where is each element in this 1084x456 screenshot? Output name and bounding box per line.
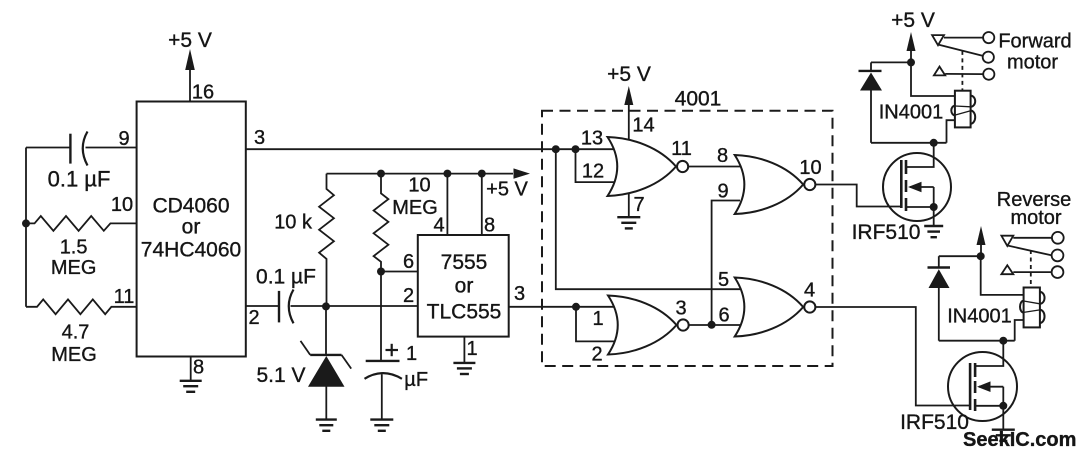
NOR gate A (pins 13,12 -> 11) (608, 137, 689, 196)
svg-text:2: 2 (403, 285, 414, 307)
wire Q2 source to ground (1002, 406, 1004, 430)
pin label 13 (581, 128, 603, 150)
svg-text:SeekIC.com: SeekIC.com (963, 429, 1076, 451)
svg-text:TLC555: TLC555 (427, 301, 502, 324)
svg-text:µF: µF (404, 369, 428, 391)
wire rail to U2 pin 4 (446, 174, 448, 235)
label C3 value 1 uF (404, 343, 428, 391)
wire: left vertical bus from pin 9 branch down to pin 11 branch (25, 148, 27, 307)
svg-text:11: 11 (671, 138, 692, 160)
pin label 4 (804, 280, 815, 302)
svg-text:motor: motor (1010, 207, 1061, 229)
svg-text:4.7: 4.7 (62, 322, 90, 344)
NOR gate C (pins 1,2 -> 3) (608, 296, 689, 355)
pin label 14 (632, 115, 654, 137)
label R1 value 1.5 MEG (51, 237, 97, 280)
svg-text:12: 12 (582, 161, 604, 183)
label Q2 IRF510 (900, 411, 969, 434)
label D3 IN4001 (947, 306, 1012, 328)
pin label 9 (717, 181, 728, 203)
wire D2 anode to Q1 drain node and coil return (871, 142, 947, 144)
svg-text:74HC4060: 74HC4060 (141, 239, 241, 262)
transistor Q1 IRF510 (883, 143, 951, 221)
IC U3 4001 dashed package box (542, 88, 833, 367)
wire U2 pin 6 to R4 bottom (381, 271, 418, 273)
wire pin 8 to ground (190, 357, 192, 381)
ground (Q1 source) (924, 226, 943, 237)
svg-text:IRF510: IRF510 (900, 411, 969, 434)
pin label 3 (675, 298, 686, 320)
pin label 3 (U1 output) (254, 127, 265, 149)
label D1 value 5.1 V (256, 364, 305, 387)
svg-text:1: 1 (592, 308, 603, 330)
resistor R2 4.7 MEG (pin 11) (26, 299, 137, 314)
capacitor C1 0.1 uF (pin 9 coupling) (70, 132, 87, 166)
svg-text:10 k: 10 k (274, 212, 313, 234)
pin label 16 (192, 82, 214, 104)
label R3 value 10 k (274, 212, 313, 234)
wire rail to U2 pin 8 (481, 174, 483, 235)
node dot rail / pin 8 (478, 170, 486, 178)
pin label 10 (799, 157, 821, 179)
svg-text:3: 3 (514, 283, 525, 305)
relay K1 coil (forward) (951, 91, 975, 128)
svg-text:3: 3 (675, 298, 686, 320)
wire +5V node to relay coil top (reverse) (981, 256, 1024, 295)
pin label 10 (111, 194, 133, 216)
svg-text:5: 5 (718, 269, 729, 291)
svg-text:2: 2 (591, 344, 602, 366)
label C2 value 0.1 uF (256, 266, 316, 289)
label Reverse motor (997, 189, 1071, 229)
pin label 8 (193, 357, 204, 379)
svg-text:5.1 V: 5.1 V (256, 364, 305, 387)
node dot +5V / D3 / relay coil (reverse) (977, 252, 985, 260)
NOR gate D (pins 5,6 -> 4) (735, 278, 816, 337)
pin label 6 (403, 251, 414, 273)
wire U1 pin 2 to C2 (246, 305, 279, 307)
svg-text:7: 7 (633, 194, 644, 216)
svg-text:8: 8 (193, 357, 204, 379)
wire +5V rail above 7555 (327, 173, 514, 175)
wire pin 12 tie branch (576, 149, 619, 182)
wire gate A output to gate B pin 8 (688, 166, 740, 168)
ground (Q2 source) (992, 430, 1015, 441)
svg-text:+5 V: +5 V (168, 29, 212, 52)
wire gate B pin 9 from gate C output line (712, 201, 740, 325)
svg-text:1.5: 1.5 (60, 237, 88, 259)
svg-text:9: 9 (717, 181, 728, 203)
node dot +5V / D2 / relay coil (forward) (907, 58, 915, 66)
svg-text:4001: 4001 (675, 88, 722, 111)
power +5V arrow (forward relay) (891, 9, 935, 62)
label Q1 IRF510 (852, 221, 921, 244)
wire U1 pin 3 to NOR gate pin 13 (long top line) (246, 148, 618, 150)
wire gate D output 4 to Q2 gate (815, 307, 970, 406)
relay K2 switch contacts (reverse) (1001, 232, 1063, 287)
wire relay coil bottom return (reverse) (1015, 320, 1024, 341)
pin label 2 (U2) (403, 285, 414, 307)
node dot pin13 line / pin12 branch (572, 145, 580, 153)
pin label 7 (633, 194, 644, 216)
wire +5V node to relay coil top (forward) (911, 62, 955, 96)
wire gate B output 10 to Q1 gate (815, 185, 901, 207)
svg-text:MEG: MEG (51, 344, 97, 366)
svg-text:7555: 7555 (441, 251, 488, 274)
pin label 2 (591, 344, 602, 366)
pin label 5 (718, 269, 729, 291)
wire pin 5 long branch (down and right to gate D) (556, 149, 740, 289)
node dot U2 pin3 line / pin2 branch (572, 303, 580, 311)
diode D2 IN4001 (forward flyback) (859, 71, 883, 143)
wire pin 16 to +5V (189, 58, 191, 102)
svg-text:16: 16 (192, 82, 214, 104)
svg-text:10: 10 (408, 175, 430, 197)
node junction dot on left bus at 1.5 MEG branch (22, 219, 30, 227)
svg-text:3: 3 (254, 127, 265, 149)
wire node A to U2 pin 2 (326, 305, 418, 307)
svg-text:CD4060: CD4060 (152, 195, 229, 218)
diode D3 IN4001 (reverse flyback) (928, 268, 951, 341)
ground (U3 pin 7) (617, 217, 640, 228)
svg-text:11: 11 (114, 286, 135, 308)
wire pin6 node down to C3 (crosses pin2 wire, no joint) (380, 272, 382, 361)
NOR gate B (pins 8,9 -> 10) (735, 155, 816, 214)
IC U1 CD4060 box (137, 102, 246, 357)
svg-text:+5 V: +5 V (486, 179, 528, 201)
power +5V arrow (U3 pin 14) (607, 63, 651, 105)
svg-text:6: 6 (403, 251, 414, 273)
wire gate A pin 14 to +5V (628, 95, 630, 150)
pin label 1 (U2) (466, 338, 477, 360)
label C1 value 0.1 uF (48, 167, 111, 192)
pin label 3 (U2 output) (514, 283, 525, 305)
relay K2 coil (reverse) (1020, 288, 1045, 328)
svg-text:1: 1 (466, 338, 477, 360)
node dot Q2 drain junction (999, 337, 1007, 345)
wire pin 2 tie branch (576, 307, 618, 342)
svg-text:10: 10 (111, 194, 133, 216)
svg-text:10: 10 (799, 157, 821, 179)
wire U2 pin 3 to NOR gate pin 1 (509, 306, 618, 308)
svg-text:IRF510: IRF510 (852, 221, 921, 244)
power +5V arrow (reverse relay) (977, 226, 986, 256)
svg-text:1: 1 (406, 343, 417, 365)
svg-text:or: or (182, 216, 201, 239)
svg-text:or: or (455, 275, 474, 298)
svg-text:6: 6 (718, 305, 729, 327)
wire Q1 source to ground (933, 207, 935, 226)
wire pin 9 branch left segment (26, 147, 70, 149)
capacitor C3 1 uF polarized (365, 344, 402, 420)
pin label 11 (114, 286, 135, 308)
node dot Q2 source (999, 402, 1007, 410)
svg-text:+5 V: +5 V (891, 9, 935, 32)
svg-text:8: 8 (484, 215, 495, 237)
svg-text:0.1 µF: 0.1 µF (256, 266, 316, 289)
ground (U1 pin 8) (180, 381, 202, 392)
node dot rail / pin 4 (443, 170, 451, 178)
label Forward motor (998, 31, 1071, 74)
power +5V arrow on rail (486, 168, 530, 200)
IC U2 7555 box (418, 235, 509, 337)
svg-text:13: 13 (581, 128, 603, 150)
ground (U2 pin 1) (453, 363, 475, 374)
label R2 value 4.7 MEG (51, 322, 97, 367)
transistor Q2 IRF510 (948, 341, 1017, 421)
wire +5V node to D2 cathode (871, 62, 911, 71)
capacitor C2 0.1 uF (timing coupling) (279, 290, 294, 324)
wire gate A pin 7 to ground (628, 185, 630, 217)
svg-text:2: 2 (248, 307, 259, 329)
wire relay coil bottom return (forward) (947, 120, 955, 143)
wire from C1 to pin 9 of U1 (86, 147, 137, 149)
zener diode D1 5.1 V (301, 306, 352, 419)
label D2 IN4001 (879, 102, 944, 124)
svg-text:MEG: MEG (51, 257, 97, 279)
svg-text:4: 4 (433, 215, 444, 237)
svg-text:+5 V: +5 V (607, 63, 651, 86)
pin label 8 (717, 145, 728, 167)
svg-text:IN4001: IN4001 (947, 306, 1012, 328)
label R4 value 10 MEG (392, 175, 438, 220)
relay K1 switch contacts (forward) (932, 32, 994, 90)
svg-text:14: 14 (632, 115, 654, 137)
node dot rail / R4 top (377, 170, 385, 178)
wire gate C output to gate D pin 6 (689, 324, 740, 326)
pin label 8 (484, 215, 495, 237)
pin label 6 (718, 305, 729, 327)
svg-text:MEG: MEG (392, 197, 438, 219)
pin label 1 (592, 308, 603, 330)
node dot Q1 source (930, 203, 938, 211)
node dot pin 6 / R4 / C3 (377, 268, 385, 276)
node dot pin13 line / pin5 branch (552, 145, 560, 153)
node A junction dot (C2 / R3 / zener) (322, 302, 330, 310)
watermark SeekIC.com (963, 429, 1076, 451)
node dot Q1 drain junction (930, 139, 938, 147)
wire C2 to junction node A (291, 305, 327, 307)
pin label 4 (433, 215, 444, 237)
svg-text:motor: motor (1007, 52, 1058, 74)
ground (zener anode) (316, 420, 337, 431)
node dot pin 9 branch / gate C output (708, 321, 716, 329)
svg-text:Forward: Forward (998, 31, 1071, 53)
pin label 12 (582, 161, 604, 183)
svg-text:9: 9 (118, 128, 129, 150)
svg-text:4: 4 (804, 280, 815, 302)
svg-text:IN4001: IN4001 (879, 102, 944, 124)
svg-text:8: 8 (717, 145, 728, 167)
resistor R4 10 MEG (374, 174, 389, 272)
svg-text:0.1 µF: 0.1 µF (48, 167, 111, 192)
wire +5V node to D3 cathode (939, 256, 981, 267)
power +5V arrow (U1 pin 16) (168, 29, 212, 70)
wire D3 anode to Q2 drain node and coil return (939, 340, 1015, 342)
resistor R1 1.5 MEG (pin 10) (26, 216, 137, 231)
pin label 2 (U1 right lower) (248, 307, 259, 329)
pin label 11 (671, 138, 692, 160)
wire U2 pin 1 to ground (463, 337, 465, 363)
pin label 9 (118, 128, 129, 150)
resistor R3 10 k (319, 174, 334, 307)
ground (C3 negative) (370, 420, 393, 431)
